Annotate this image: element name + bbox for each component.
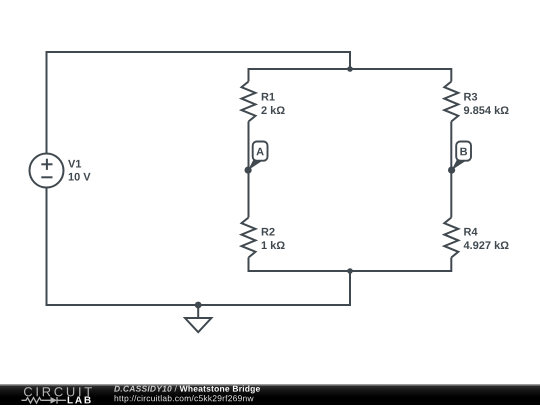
- V1 value label 10 V: [69, 173, 91, 181]
- logo resistor-diode symbol: [22, 397, 67, 404]
- footer schematic title: [180, 385, 260, 393]
- junction top at (350,69): [347, 66, 353, 72]
- resistor R1: [242, 82, 256, 122]
- R4 name label: [464, 228, 477, 236]
- wire R3 bottom to R4 top (through node B): [450, 122, 452, 218]
- footer url: [115, 395, 254, 403]
- R1 value label 2 kOhm: [261, 106, 284, 114]
- resistor R2: [242, 218, 256, 258]
- junction bottom at (350,271): [347, 268, 353, 274]
- wire from V1 top up, along top rail, down to inner rail: [47, 52, 351, 154]
- logo wordmark CIRCUIT: [24, 387, 92, 396]
- R2 name label: [262, 228, 275, 236]
- V1 name label: [68, 160, 81, 168]
- wire bottom dropper, bottom rail, up to V1 bottom: [47, 188, 351, 306]
- resistor R4: [444, 218, 458, 258]
- R1 name label: [262, 93, 275, 101]
- footer bar: [0, 384, 540, 405]
- footer author name: [114, 386, 172, 392]
- node A flag: [245, 142, 268, 174]
- logo wordmark LAB: [68, 397, 91, 404]
- resistor R3: [444, 82, 458, 122]
- voltage source V1: [30, 154, 64, 188]
- R4 value label 4.927 kOhm: [464, 241, 509, 249]
- ground: [185, 302, 211, 333]
- wire inner bottom rail with R2/R4 bottom stubs: [249, 258, 452, 272]
- R3 name label: [464, 93, 477, 101]
- node B flag: [448, 142, 471, 174]
- footer separator slash: [175, 385, 177, 391]
- R2 value label 1 kOhm: [262, 241, 285, 249]
- wire R1 bottom to R2 top (through node A): [248, 122, 250, 218]
- R3 value label 9.854 kOhm: [464, 106, 509, 114]
- wire inner top rail with R1/R3 top stubs: [249, 69, 452, 82]
